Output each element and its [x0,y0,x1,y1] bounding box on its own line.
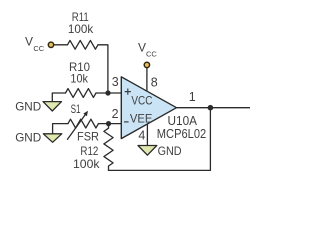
resistor R10 [66,89,97,98]
resistor S1 FSR element [68,119,99,128]
wire VCC1 terminal to R11 [54,44,67,46]
op-amp plus input marker [125,89,131,95]
wire pin 4 to GND3 [146,124,148,145]
junction node B [106,121,111,126]
svg-text:S1: S1 [71,102,81,116]
svg-text:U10A: U10A [168,114,198,128]
feedback wire bottom to output node [109,108,211,171]
output wire pin 1 [177,107,251,109]
junction node A [105,90,110,95]
svg-text:GND: GND [15,131,41,145]
svg-text:100k: 100k [73,157,101,171]
svg-text:1: 1 [189,90,196,104]
svg-text:GND: GND [15,100,41,114]
junction output node [208,105,214,111]
svg-text:MCP6L02: MCP6L02 [157,127,206,141]
arrowhead of S1 arrow [83,111,88,116]
terminal VCC1 [48,42,53,47]
wire R10 to node A [96,92,108,94]
svg-text:CC: CC [146,50,157,59]
resistor R11 [68,40,99,49]
ground GND3 [138,146,157,156]
arrow of variable resistor S1 [68,115,86,139]
svg-text:V: V [138,40,146,54]
ground GND1 [43,102,62,111]
wire VCC2 terminal to pin 8 [146,68,148,91]
terminal VCC2 [144,62,149,67]
wire node B to pin 2 [109,123,122,125]
svg-text:8: 8 [151,76,158,90]
resistor R12 [104,124,113,171]
svg-text:100k: 100k [68,22,94,36]
ground GND2 [43,134,62,143]
wire S1 to node B [99,123,109,125]
svg-text:4: 4 [138,129,145,143]
svg-text:V: V [25,35,33,49]
wire S1 to GND2 [53,124,68,134]
svg-text:VEE: VEE [130,111,153,125]
svg-text:3: 3 [112,75,119,89]
svg-text:10k: 10k [70,72,88,86]
label VCC1 [25,35,45,53]
svg-text:VCC: VCC [131,94,152,108]
op-amp U10A body [121,77,176,139]
op-amp minus input marker [124,121,129,123]
svg-text:CC: CC [33,44,44,53]
wire R10 to GND1 [52,93,65,101]
wire node A to pin 3 [108,92,121,94]
label VCC2 [138,40,157,58]
svg-text:GND: GND [158,144,182,158]
svg-text:2: 2 [112,107,119,121]
svg-text:FSR: FSR [77,129,99,143]
wire R11 to node A [98,45,108,91]
